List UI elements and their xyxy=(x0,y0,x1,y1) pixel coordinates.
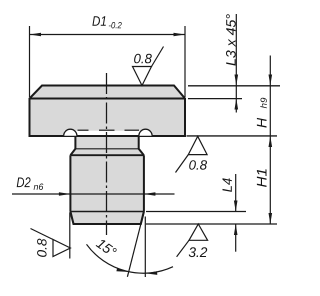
H1 dimension line xyxy=(269,136,271,224)
L3 extension: chamfer base extended xyxy=(188,98,242,100)
groove arc right xyxy=(139,129,152,136)
surface finish 3.2 bottom right xyxy=(177,224,208,257)
bottom edge extended right xyxy=(146,223,277,225)
groove arc left xyxy=(64,129,77,136)
groove under head (white recess) xyxy=(64,131,152,135)
D2 leader/dimension line xyxy=(12,193,175,195)
surface finish 0.8 bottom left symbol xyxy=(31,229,71,257)
neck-cone edge xyxy=(75,148,138,150)
L3 dimension arrows xyxy=(235,14,237,113)
D1 extension line left xyxy=(29,26,31,97)
15deg arc arrow right xyxy=(146,271,158,275)
shaft bottom chamfer + bottom edge xyxy=(70,212,143,225)
L4 extension: chamfer edge extended right xyxy=(146,211,246,213)
D1 dimension line xyxy=(30,34,186,36)
head outline xyxy=(30,86,186,137)
D1 label xyxy=(92,16,105,26)
H h9 label xyxy=(257,118,267,128)
L3 extension: head top edge extended xyxy=(188,85,280,87)
surface finish 0.8 top xyxy=(133,47,164,86)
L4 label xyxy=(223,178,232,192)
15deg slanted leg (chamfer extension) xyxy=(127,212,144,277)
head bottom edge extended right xyxy=(187,135,278,137)
H dimension arrows xyxy=(269,56,271,137)
shaft sides xyxy=(70,155,143,211)
15deg arc arrow left xyxy=(116,268,128,272)
cone-shaft edge xyxy=(70,154,143,156)
15deg vertical leg xyxy=(144,217,146,278)
centerline xyxy=(106,73,108,235)
shaft chamfer edge xyxy=(70,211,143,213)
neck below head xyxy=(70,136,143,155)
15deg arc xyxy=(87,244,174,273)
groove hidden edge dashes xyxy=(78,129,89,131)
H1 label xyxy=(257,169,267,187)
D1 arrow right xyxy=(174,33,186,37)
surface finish 0.8 right (inverted, on head bottom ext line) xyxy=(176,136,208,172)
L3 x 45 label xyxy=(226,14,236,65)
L4 dimension arrows xyxy=(235,174,237,212)
head chamfer base edge xyxy=(30,98,186,100)
D1 extension line right xyxy=(184,26,186,97)
D2 arrow right xyxy=(144,192,156,196)
D1 arrow left xyxy=(30,33,42,37)
surface finish 0.8 bottom left leader xyxy=(69,213,71,259)
pin body fill (head + neck + shaft) xyxy=(30,86,186,150)
15deg label xyxy=(96,238,118,258)
D2 arrow left xyxy=(59,192,71,196)
D2 label xyxy=(17,177,31,187)
0.8 bottom left label xyxy=(37,239,47,257)
